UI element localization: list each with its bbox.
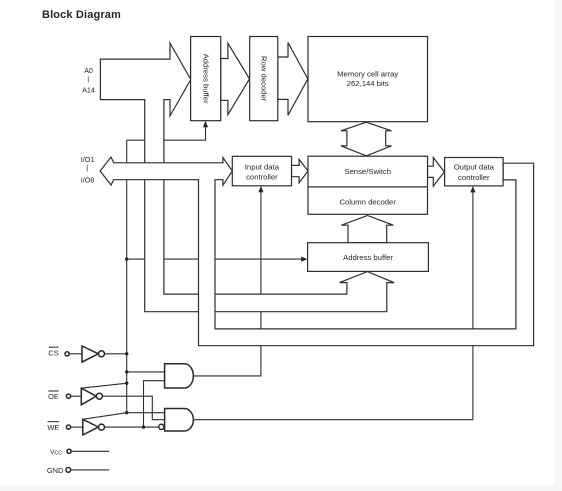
right margin band [555, 0, 562, 491]
block arrow input data controller to sense switch [292, 159, 309, 183]
svg-text:VCC: VCC [50, 449, 62, 457]
bubble gate2 input [159, 424, 164, 429]
svg-text:I/O1: I/O1 [81, 155, 95, 164]
box sense switch / column decoder [308, 156, 428, 214]
wire gate1 output to input data controller [193, 189, 261, 376]
svg-text:A0: A0 [84, 66, 93, 75]
wire gate2 output to output data controller [193, 189, 473, 420]
node CS inverter output [125, 352, 128, 355]
svg-text:CS: CS [48, 348, 58, 357]
arrowhead into top address buffer [203, 121, 208, 127]
gate AND G1 [165, 364, 194, 388]
svg-text:Memory cell array: Memory cell array [337, 69, 398, 78]
divider sense switch / column decoder [308, 186, 428, 188]
terminal Vcc [67, 449, 71, 453]
bus I/O double arrow with channel to output data controller [100, 157, 533, 346]
block arrow memory array / sense switch bidirectional [341, 122, 392, 156]
block arrow address buffer to column decoder [341, 216, 393, 243]
svg-text:Sense/Switch: Sense/Switch [344, 167, 391, 176]
terminal OE [66, 394, 70, 398]
gate AND G2 [165, 409, 194, 432]
node gate1 input A [125, 370, 128, 373]
block arrow row decoder to memory cell array [278, 43, 308, 116]
svg-text:Output data: Output data [454, 163, 495, 172]
terminal CS [65, 352, 69, 356]
node CS-net / bottom address buffer wire [125, 257, 128, 260]
wire GND stub [71, 469, 110, 471]
svg-text:controller: controller [458, 173, 490, 182]
label I/O dash [86, 165, 88, 171]
svg-text:Address buffer: Address buffer [343, 253, 393, 262]
box row decoder [250, 37, 278, 121]
inverter WE [83, 419, 99, 435]
node diagonal A junction [125, 382, 128, 385]
block arrow address buffer to row decoder [221, 43, 250, 114]
wire to bottom address buffer [127, 258, 303, 260]
block arrow sense switch to output data controller [428, 158, 445, 187]
box input data controller [232, 156, 291, 186]
node diagonal B junction [125, 411, 128, 414]
svg-text:262,144 bits: 262,144 bits [347, 79, 389, 88]
wire CS-net vertical [126, 140, 128, 413]
label A0-A14 dash [87, 76, 89, 82]
wire Vcc stub [71, 450, 109, 452]
svg-text:I/O8: I/O8 [81, 175, 95, 184]
svg-text:GND: GND [47, 466, 63, 475]
bottom margin band [0, 486, 562, 491]
wire CS input [69, 353, 82, 355]
svg-text:Row decoder: Row decoder [260, 56, 269, 102]
arrowhead into bottom address buffer [301, 257, 307, 262]
svg-text:WE: WE [47, 423, 59, 432]
wire CS inverter output [105, 353, 127, 355]
inverter CS [82, 346, 98, 362]
terminal WE [66, 425, 70, 429]
wire OE input [71, 395, 82, 397]
box output data controller [445, 158, 504, 186]
wire diagonal OE to CS-net [81, 383, 126, 388]
wire gate1 input A [127, 371, 165, 373]
box memory cell array [308, 37, 428, 122]
bus A0-A14 big arrow with channel to bottom address buffer [100, 43, 394, 312]
wire WE inverter output to gate2 bubble input [105, 426, 159, 428]
arrowhead into input data controller [258, 186, 263, 192]
wire WE input [71, 426, 83, 428]
terminal GND [66, 468, 71, 473]
svg-text:Input data: Input data [245, 162, 280, 171]
inverter OE [81, 388, 96, 405]
wire to top address buffer [127, 124, 206, 140]
box address buffer bottom [308, 243, 429, 272]
svg-text:Column decoder: Column decoder [339, 198, 396, 207]
svg-text:A14: A14 [82, 86, 95, 95]
svg-text:Address buffer: Address buffer [202, 54, 211, 104]
box address buffer top [191, 37, 221, 121]
svg-text:OE: OE [48, 392, 59, 401]
wire gate1 input B [144, 381, 165, 427]
arrowhead into output data controller [470, 186, 475, 192]
svg-text:controller: controller [246, 173, 278, 182]
wire OE inverter output to gate2 input B [103, 396, 165, 420]
wire gate2 input A [127, 412, 165, 414]
node WE wire / gate1 input B [142, 425, 145, 428]
svg-text:Block Diagram: Block Diagram [42, 9, 121, 21]
wire diagonal WE to CS-net [83, 413, 127, 420]
